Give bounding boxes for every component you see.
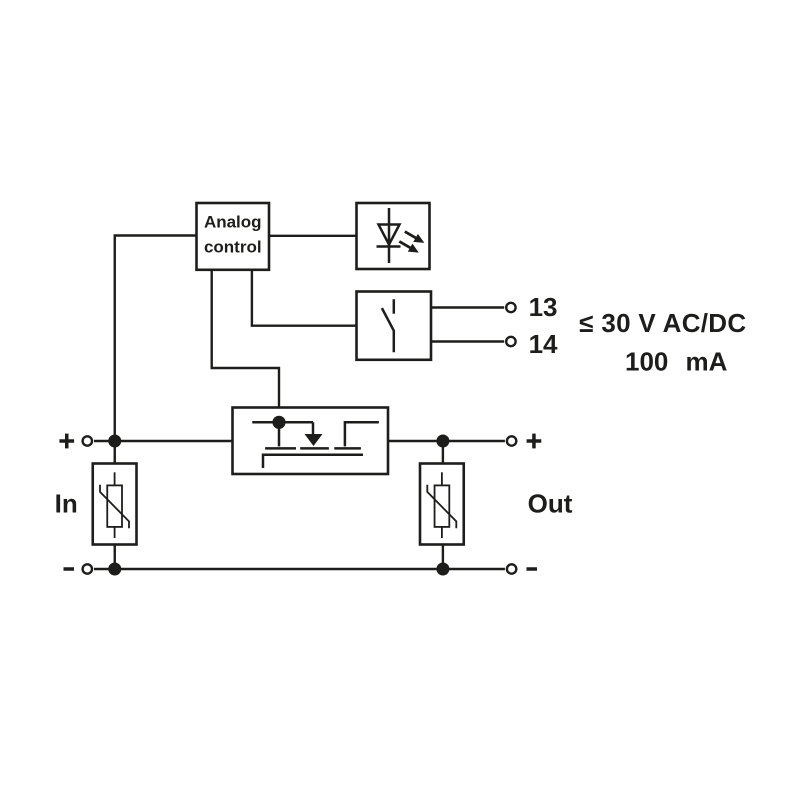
plus sign left	[59, 434, 74, 449]
junction dot -Out	[436, 563, 449, 576]
wire - rail	[94, 568, 505, 570]
wire switch box to terminal 14	[431, 340, 504, 342]
terminal circle -In	[83, 564, 92, 573]
svg-text:In: In	[55, 488, 78, 518]
junction dot -In	[108, 563, 121, 576]
wire Analog control to MOSFET gate	[212, 270, 279, 409]
terminal circle 14	[506, 337, 515, 346]
wire + node to right varistor	[442, 441, 444, 465]
LED D1	[377, 208, 401, 263]
Analog control box U1	[197, 203, 270, 270]
svg-text:13: 13	[529, 292, 558, 322]
wire Analog control to switch box	[252, 270, 357, 326]
MOSFET junction dot	[272, 416, 285, 429]
varistor box right (output protection)	[420, 464, 464, 545]
wire switch box to terminal 13	[431, 306, 504, 308]
terminal circle +Out	[507, 436, 516, 445]
wire left varistor to - rail	[114, 544, 116, 569]
varistor box left (input protection)	[93, 464, 137, 545]
MOSFET Q1/Q2 symbol	[252, 422, 379, 468]
MOSFET output box	[233, 408, 389, 475]
terminal circle +In	[83, 436, 92, 445]
terminal circle 13	[506, 303, 515, 312]
minus sign right	[527, 567, 538, 571]
terminal circle -Out	[507, 564, 516, 573]
plus sign right	[527, 434, 542, 449]
minus sign left	[64, 567, 75, 571]
svg-text:≤ 30 V AC/DC: ≤ 30 V AC/DC	[579, 308, 746, 338]
LED light arrow 2	[397, 237, 421, 256]
switch contact S1	[382, 299, 394, 352]
switch box (relay output)	[357, 292, 432, 360]
wire right varistor to - rail	[442, 544, 444, 569]
svg-text:Out: Out	[528, 488, 573, 518]
wire + rail right	[388, 440, 505, 442]
varistor RU2 symbol	[427, 472, 456, 538]
wire from +In node up and to Analog control input	[115, 236, 197, 465]
MOSFET arrowhead	[305, 434, 323, 446]
svg-text:Analog: Analog	[204, 212, 262, 231]
svg-text:14: 14	[529, 329, 558, 359]
svg-text:mA: mA	[686, 347, 728, 377]
svg-text:100: 100	[625, 347, 668, 377]
junction dot +In	[108, 435, 121, 448]
svg-text:control: control	[204, 237, 262, 256]
wire + rail left	[94, 440, 233, 442]
LED light arrow 1	[403, 228, 427, 247]
junction dot +Out	[436, 435, 449, 448]
varistor RU1 symbol	[100, 472, 129, 538]
LED indicator box	[357, 203, 430, 269]
wire Analog control to LED box	[269, 235, 357, 237]
